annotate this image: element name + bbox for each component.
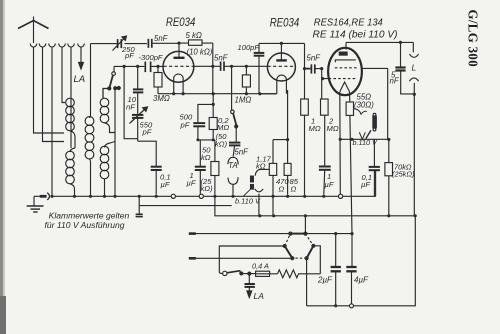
svg-text:0,4 A: 0,4 A — [252, 262, 269, 271]
bottom rail — [307, 216, 416, 306]
svg-text:MΩ: MΩ — [327, 124, 339, 133]
svg-text:kΩ): kΩ) — [215, 140, 228, 149]
capacitor 5nF output — [395, 42, 414, 94]
node anode tube1 — [177, 42, 180, 45]
svg-text:5nF: 5nF — [307, 54, 322, 63]
bus junction dots — [50, 195, 325, 198]
svg-text:µF: µF — [325, 180, 334, 189]
lamp 1,17kOhm — [250, 176, 254, 190]
mains loop left — [219, 246, 284, 273]
chassis bus — [34, 195, 376, 197]
capacitor 10nF — [133, 66, 143, 114]
svg-text:RE034: RE034 — [270, 17, 300, 29]
svg-text:G/LG 300: G/LG 300 — [465, 10, 480, 68]
svg-text:pF: pF — [124, 51, 134, 60]
svg-text:MΩ: MΩ — [309, 124, 321, 133]
coil R1 (RF coupling upper) — [100, 89, 115, 133]
svg-text:L: L — [412, 63, 417, 73]
capacitor 100pF — [254, 43, 277, 93]
resistor 5kOhm — [179, 40, 213, 45]
TA sleeve rail — [139, 205, 232, 207]
antenna terminal cup 6 — [78, 44, 85, 48]
arrow to LA terminal — [79, 47, 84, 69]
svg-text:Ω: Ω — [291, 185, 297, 194]
bus end riser through 0,1uF — [375, 170, 377, 196]
resistor 50kOhm — [211, 140, 219, 195]
resistor 55 Ohm — [346, 92, 353, 234]
voltage selector hexagon — [285, 234, 314, 259]
scan left edge strip — [0, 0, 3, 334]
jack L output — [409, 42, 418, 215]
wire heater drop tube2 — [258, 194, 260, 216]
wire anode node down — [304, 43, 306, 68]
svg-text:LA: LA — [254, 291, 265, 301]
heater line 1 — [189, 232, 291, 235]
variable capacitor 550pF — [130, 107, 148, 141]
resistor 0,2MOhm — [209, 104, 217, 139]
antenna — [18, 17, 49, 44]
capacitor 5nF TA — [229, 143, 240, 157]
svg-text:3MΩ: 3MΩ — [153, 94, 170, 103]
switch b110V — [359, 130, 371, 139]
grid branch tube3 — [320, 67, 329, 80]
filament leg tube3 to bus socket — [339, 92, 342, 194]
capacitor 4uF — [346, 234, 356, 308]
anode top wire tube3 — [346, 41, 413, 43]
svg-text:für 110 V Ausführung: für 110 V Ausführung — [45, 221, 125, 230]
capacitor 5nF to output tube — [305, 64, 322, 73]
heater line 2 — [189, 257, 292, 260]
svg-text:Ω: Ω — [279, 185, 285, 194]
capacitor 5nF interstage — [221, 62, 268, 71]
antenna terminal cup 1 — [30, 44, 37, 48]
capacitor 1uF no.2 — [319, 167, 331, 195]
heater rail — [215, 196, 415, 216]
wire cup4 down to coil L1 top — [62, 47, 65, 103]
wire to 0.1uF — [138, 141, 157, 166]
antenna terminal cup 5 — [68, 44, 75, 48]
fuse 0,4A — [256, 271, 278, 276]
coil M (tuning coil) — [85, 117, 94, 196]
ground — [27, 196, 44, 212]
bias connector link — [198, 139, 215, 141]
TA pickup branch with switch — [231, 66, 238, 142]
capacitor 300pF — [145, 62, 150, 73]
power tetrode RES164 — [328, 42, 388, 95]
wire antenna line to 250pF — [125, 43, 148, 45]
anode wire tube2 — [259, 42, 305, 44]
svg-text:kΩ): kΩ) — [201, 184, 214, 193]
dropper resistor zigzag — [278, 270, 321, 278]
LA tap capacitor — [245, 274, 255, 298]
svg-text:(25kΩ): (25kΩ) — [392, 170, 415, 179]
svg-text:kΩ: kΩ — [256, 162, 266, 171]
bus open socket circles — [171, 194, 343, 198]
resistor 2MOhm grid leak tube3 — [321, 79, 329, 166]
svg-text:RE 114 (bei 110 V): RE 114 (bei 110 V) — [313, 28, 398, 40]
svg-text:(10 kΩ): (10 kΩ) — [187, 48, 213, 57]
capacitor 5nF coupling — [148, 39, 179, 48]
wave band switch S1 — [103, 66, 120, 98]
svg-text:4µF: 4µF — [354, 276, 369, 285]
wire cup1 down to coil tap — [34, 47, 65, 133]
hexagon BR riser to bottom rail — [306, 258, 308, 306]
node bias — [212, 103, 215, 106]
ballast lamp — [373, 113, 376, 131]
hexagon vertex dots — [283, 232, 316, 261]
wire TR vertex to heater rail — [304, 216, 306, 234]
svg-text:µF: µF — [161, 180, 170, 189]
svg-text:5nF: 5nF — [154, 34, 169, 43]
capacitor 0,1uF no.1 — [151, 167, 162, 195]
triode RE034 no.1 — [163, 43, 194, 94]
svg-text:RES164,RE 134: RES164,RE 134 — [314, 16, 383, 28]
wire cup3 down to bus — [51, 47, 53, 196]
jack headphone contacts — [255, 169, 263, 191]
svg-text:LA: LA — [74, 74, 86, 85]
svg-text:b.110 V: b.110 V — [353, 138, 378, 147]
heater junction wire — [340, 138, 388, 140]
resistor 470 Ohm — [269, 138, 289, 216]
svg-text:2µF: 2µF — [317, 276, 333, 285]
chassis plug in bus — [40, 193, 50, 200]
coil L2 (antenna coil lower) — [66, 148, 75, 196]
svg-text:5nF: 5nF — [235, 148, 250, 157]
svg-text:nF: nF — [390, 77, 400, 86]
wire cup2 down to coil tap — [43, 47, 65, 142]
wire 550pF bottom link — [124, 66, 138, 138]
capacitor 500pF branch — [193, 104, 213, 139]
wire 5k to grid rail — [212, 43, 214, 66]
triode RE034 no.2 — [267, 43, 295, 163]
stub jack to 470 — [261, 168, 270, 170]
antenna terminal cup 4 — [59, 44, 66, 48]
heater rail dots — [258, 214, 417, 217]
capacitor 1uF no.1 — [195, 140, 206, 194]
svg-text:MΩ: MΩ — [217, 123, 229, 132]
capacitor 2uF — [331, 234, 341, 308]
svg-text:pF: pF — [142, 128, 152, 137]
wire switch contact to bus — [114, 89, 116, 196]
jack TA — [228, 157, 238, 194]
antenna terminal cup 2 — [39, 44, 46, 48]
resistor 85 Ohm — [284, 163, 291, 194]
antenna terminal cup 3 — [49, 44, 56, 48]
variable capacitor 250pF — [113, 36, 127, 51]
node: RF line junction — [91, 44, 114, 117]
svg-text:b.110 V: b.110 V — [235, 197, 261, 206]
svg-text:(30Ω): (30Ω) — [354, 101, 374, 110]
svg-text:5nF: 5nF — [214, 54, 229, 63]
cathode line tube1-tube2 — [158, 93, 277, 95]
svg-text:1MΩ: 1MΩ — [235, 96, 252, 105]
svg-text:-300pF: -300pF — [139, 53, 163, 62]
mains switch — [223, 271, 256, 276]
wire heater line caps — [305, 233, 352, 235]
svg-text:µF: µF — [361, 180, 370, 189]
svg-text:µF: µF — [187, 179, 196, 188]
coil R2 (RF coupling lower) — [100, 142, 115, 196]
resistor 3MOhm — [154, 66, 162, 93]
junction dots grid line — [123, 65, 248, 68]
wire cup5 down to coil L2 — [70, 47, 72, 148]
svg-text:100pF: 100pF — [238, 43, 260, 52]
resistor 1MOhm grid tube2 — [242, 66, 250, 93]
svg-text:pF: pF — [180, 121, 190, 130]
svg-text:Klammerwerte gelten: Klammerwerte gelten — [49, 212, 130, 221]
coil L1 (antenna coil upper) — [66, 98, 75, 148]
svg-text:RE034: RE034 — [166, 17, 196, 29]
svg-text:5 kΩ: 5 kΩ — [186, 31, 202, 40]
svg-text:TA: TA — [228, 161, 237, 170]
svg-text:nF: nF — [126, 103, 135, 112]
chassis stub with break marks — [136, 196, 143, 216]
resistor 70kOhm — [385, 68, 393, 215]
capacitor 0,1uF no.2 — [369, 139, 380, 196]
grid line tube1 with 300pF — [114, 65, 220, 67]
svg-text:kΩ: kΩ — [201, 153, 211, 162]
wire grid rail down to bias node — [212, 66, 214, 104]
mains loop right to hexagon — [313, 246, 320, 274]
pointer line from b110V label — [244, 189, 251, 196]
jack hook at 55 Ohm — [354, 109, 367, 115]
cathode line dots — [172, 92, 261, 95]
resistor 1MOhm anode tube2 — [301, 69, 309, 195]
